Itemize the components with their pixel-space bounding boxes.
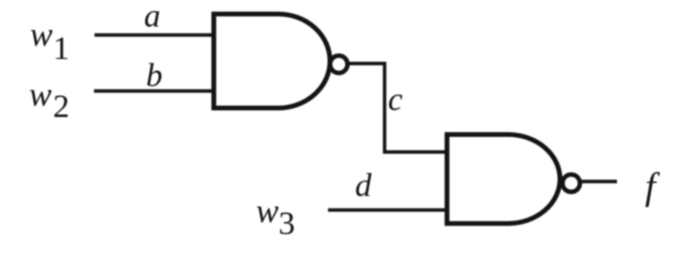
svg-text:1: 1 xyxy=(53,31,70,67)
svg-text:w: w xyxy=(256,193,279,230)
svg-text:w: w xyxy=(29,77,52,114)
svg-text:w: w xyxy=(30,17,53,54)
svg-text:3: 3 xyxy=(279,206,296,242)
svg-text:d: d xyxy=(355,168,372,204)
svg-text:c: c xyxy=(388,82,403,118)
svg-text:2: 2 xyxy=(53,89,70,125)
svg-text:a: a xyxy=(144,0,161,35)
svg-text:f: f xyxy=(645,166,660,208)
svg-text:b: b xyxy=(146,58,163,94)
